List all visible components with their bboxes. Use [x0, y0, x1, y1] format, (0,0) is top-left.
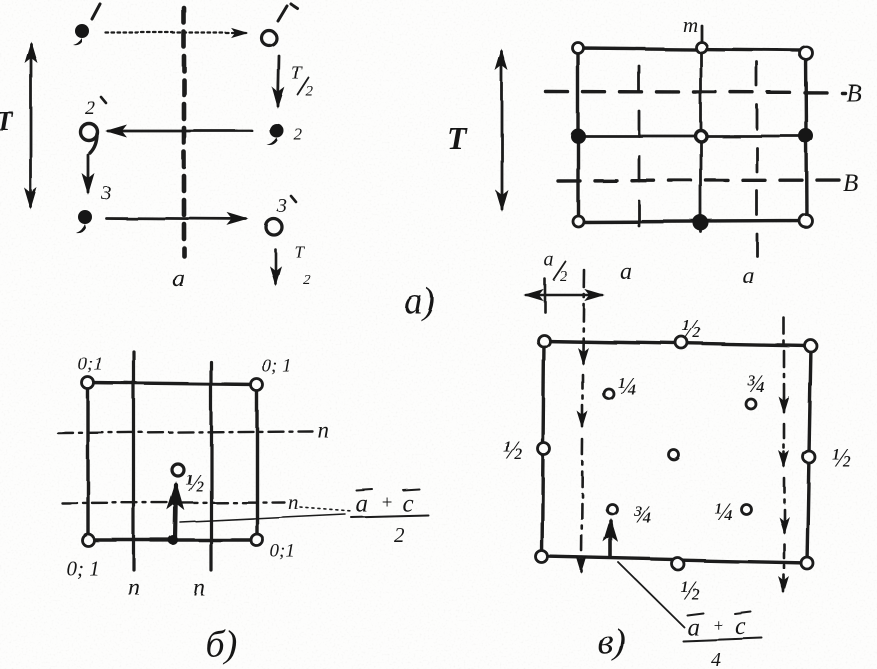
arrow 1' down T/2	[278, 56, 279, 106]
unit cell square	[542, 341, 811, 563]
leader line to formula	[180, 514, 345, 522]
axis B upper (dashed horizontal)	[546, 92, 845, 93]
svg-text:¾: ¾	[632, 501, 651, 528]
corner node top-left	[538, 335, 550, 347]
node 3 (filled)	[76, 210, 92, 233]
leader dotted to formula	[300, 507, 352, 511]
center node 1/2	[172, 464, 184, 476]
vector arrow (a+c)/4	[609, 521, 613, 557]
svg-text:3: 3	[276, 195, 287, 217]
label 1'	[278, 4, 297, 21]
node 1' (open)	[262, 31, 277, 46]
inner node 3/4 lower	[607, 504, 617, 514]
svg-text:½: ½	[680, 576, 700, 605]
corner node bottom-left	[536, 551, 548, 563]
inner node 1/4 upper	[604, 389, 614, 399]
svg-text:2: 2	[560, 269, 568, 285]
corner node 0;1 top-left	[82, 377, 94, 389]
inner node 3/4 upper	[746, 399, 756, 409]
label a/2	[544, 249, 568, 285]
lattice node top-mid (open)	[696, 42, 707, 53]
svg-text:2: 2	[303, 272, 311, 288]
svg-text:a: a	[742, 263, 754, 289]
lattice node top-right (open)	[800, 47, 813, 60]
svg-text:0; 1: 0; 1	[66, 556, 99, 580]
svg-text:½: ½	[503, 436, 523, 465]
svg-text:3: 3	[100, 182, 111, 204]
svg-text:T: T	[447, 120, 468, 156]
svg-text:¾: ¾	[746, 371, 765, 398]
svg-text:n: n	[128, 575, 140, 601]
inner node 1/4 lower	[741, 504, 751, 514]
arrow 3' down T/2	[274, 249, 277, 283]
svg-text:¼: ¼	[617, 373, 636, 400]
dimension double arrow a/2	[526, 294, 602, 297]
svg-text:n: n	[288, 490, 299, 514]
svg-text:m: m	[682, 12, 697, 36]
lattice node mid-left (filled)	[571, 129, 586, 144]
svg-text:a: a	[544, 249, 554, 271]
lattice node bottom-right (open)	[800, 215, 813, 228]
svg-text:2: 2	[294, 125, 303, 144]
label 2'	[85, 97, 95, 119]
translation vector arrow (a+c)/2	[151, 485, 176, 540]
svg-text:а): а)	[404, 281, 435, 322]
corner node 0;1 top-right	[251, 379, 263, 391]
svg-text:+: +	[712, 615, 724, 635]
label T/2 upper	[291, 63, 314, 100]
formula (a+c)/2	[355, 490, 413, 547]
svg-text:T: T	[0, 106, 14, 136]
dashed vertical line left-mid	[638, 66, 641, 237]
svg-text:½: ½	[831, 443, 851, 472]
translation arrow 2 to 2'	[108, 130, 252, 133]
glide line n vertical 1	[132, 352, 135, 570]
svg-text:c: c	[735, 613, 746, 640]
lattice node bottom-left (open)	[573, 216, 584, 227]
lattice node mid-right (filled)	[799, 129, 814, 144]
svg-text:4: 4	[711, 649, 721, 669]
svg-text:T: T	[294, 242, 305, 261]
glide plane a (dashed vertical axis)	[182, 8, 187, 256]
svg-text:в): в)	[597, 621, 625, 662]
svg-text:a: a	[172, 265, 185, 292]
label T/2 lower	[294, 242, 311, 288]
translation arrow 1 to 1' (dotted)	[106, 32, 246, 34]
svg-text:T: T	[291, 63, 303, 84]
glide line n vertical 2	[209, 362, 212, 570]
svg-text:n: n	[317, 417, 329, 442]
edge node left 1/2	[538, 443, 550, 455]
lattice node center (open bold)	[696, 131, 707, 142]
glide line n horizontal 2 (dash-dot)	[62, 502, 284, 503]
svg-text:2: 2	[394, 523, 405, 547]
edge node top 1/2	[676, 337, 688, 349]
arrow 2' down	[87, 155, 90, 192]
svg-text:0;1: 0;1	[78, 354, 103, 375]
screw axis dash-dot left (vertical with down arrows)	[583, 270, 584, 354]
svg-text:б): б)	[205, 623, 237, 665]
edge node right 1/2	[803, 451, 815, 463]
label 3'	[276, 195, 287, 217]
label 1	[92, 4, 100, 19]
svg-text:2: 2	[85, 97, 95, 119]
svg-text:a: a	[620, 259, 632, 285]
node 1 (filled)	[73, 24, 89, 45]
period arrow T right figure	[501, 52, 504, 209]
node 2 (filled)	[267, 124, 284, 146]
svg-text:½: ½	[185, 470, 204, 497]
vector origin blob	[168, 535, 178, 545]
svg-text:n: n	[193, 575, 205, 601]
node 2' (open with tail, looks like 9)	[81, 124, 98, 154]
lattice node bottom-mid (filled)	[693, 215, 709, 231]
svg-text:B: B	[846, 80, 861, 107]
node 3' (open)	[266, 219, 282, 235]
svg-text:c: c	[402, 490, 413, 517]
formula (a+c)/4	[687, 613, 746, 669]
middle horizontal lattice line	[578, 135, 807, 138]
inner node center	[669, 450, 679, 460]
svg-text:¼: ¼	[714, 499, 733, 526]
leader line to formula 2	[619, 563, 684, 627]
svg-text:½: ½	[682, 315, 702, 344]
lattice node top-left (open)	[573, 43, 584, 54]
dashed vertical line right-mid	[756, 62, 759, 256]
edge node bottom 1/2	[672, 558, 684, 570]
svg-text:+: +	[380, 492, 393, 513]
translation arrow 3 to 3'	[106, 218, 246, 219]
screw axis dash-dot right (vertical with down arrows)	[783, 318, 786, 398]
svg-text:0; 1: 0; 1	[262, 356, 292, 377]
svg-text:a: a	[687, 614, 700, 641]
svg-text:a: a	[355, 490, 368, 517]
corner node 0;1 bottom-right	[251, 534, 263, 546]
svg-text:B: B	[843, 170, 858, 197]
period arrow T (left double arrow)	[30, 44, 33, 207]
dimension tick left	[544, 279, 547, 312]
corner node bottom-right	[801, 557, 813, 569]
axis B lower (dashed horizontal)	[558, 180, 843, 181]
corner node top-right	[805, 340, 817, 352]
svg-text:2: 2	[306, 84, 314, 100]
middle vertical lattice line m	[700, 25, 703, 232]
corner node 0;1 bottom-left	[82, 534, 94, 546]
unit cell square	[88, 383, 257, 540]
glide line n horizontal 1 (dash-dot)	[58, 431, 312, 433]
lattice rectangle	[578, 48, 807, 222]
svg-text:0;1: 0;1	[270, 541, 295, 562]
